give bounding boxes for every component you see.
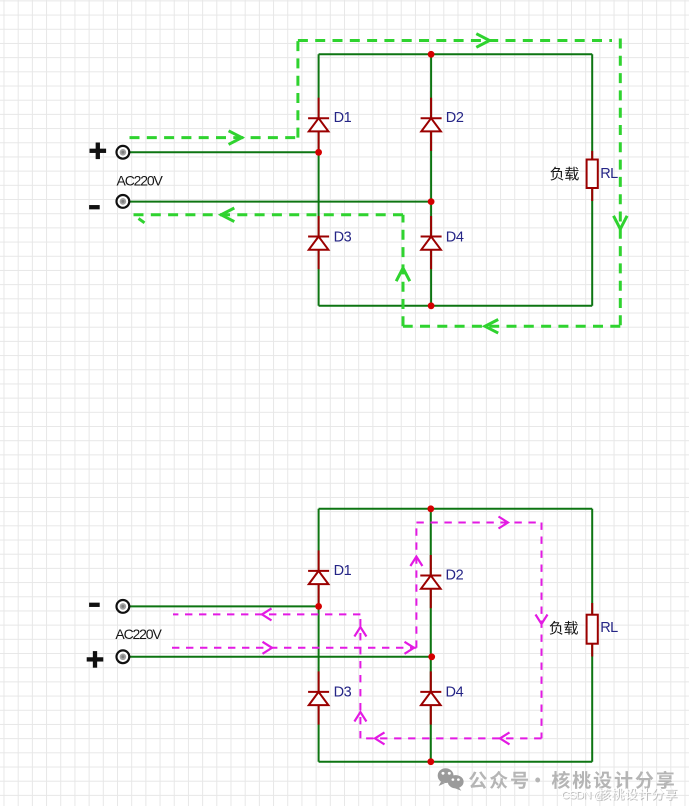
resistor RL body (bottom circuit): [587, 615, 598, 644]
svg-text:D2: D2: [446, 110, 464, 126]
junction dot + input node (top circuit): [315, 149, 322, 156]
watermark text 公众号·核桃设计分享: [469, 771, 674, 789]
WeChat logo (watermark): [438, 768, 464, 791]
svg-text:AC220V: AC220V: [115, 626, 162, 642]
terminal - (top circuit): [117, 195, 130, 208]
flow arrow down on right leg (top circuit): [614, 216, 628, 229]
diode D3 (top circuit): [308, 216, 329, 269]
flow arrow up on D4 leg (top circuit): [396, 268, 410, 281]
diode D4 (top circuit): [421, 216, 442, 269]
wire: middle vertical (bottom circuit): [430, 509, 432, 762]
wire: + input wire (top circuit): [129, 151, 319, 153]
flow arrow down on load leg (bottom circuit): [536, 615, 548, 625]
wire: bottom rail (bottom circuit): [319, 761, 593, 763]
watermark text CSDN @ (embossed): [561, 790, 605, 803]
junction dot + input node (bottom circuit): [428, 653, 435, 660]
wire: left vertical (bottom circuit): [318, 509, 320, 762]
diode D1 (top circuit): [308, 98, 329, 151]
svg-text:D2: D2: [446, 568, 464, 584]
svg-text:D3: D3: [334, 229, 352, 245]
junction dot top-middle node (bottom circuit): [427, 505, 434, 512]
svg-text:D3: D3: [334, 685, 352, 701]
flow arrow left on bottom leg (top circuit): [485, 320, 498, 334]
flow path: up left side (green dashed, top circuit): [296, 41, 299, 138]
resistor RL body (top circuit): [587, 160, 598, 189]
flow path: + terminal feed (magenta dashed, bottom circuit): [172, 647, 416, 649]
flow path: up past D2 (magenta dashed, bottom circuit): [415, 523, 417, 648]
flow arrow right on + feed (top circuit): [229, 131, 242, 145]
wire: + input wire (bottom circuit): [129, 656, 431, 658]
svg-text:CSDN @: CSDN @: [561, 790, 604, 802]
label 负载 (bottom circuit): [550, 621, 578, 635]
plus sign (bottom circuit): [87, 651, 104, 668]
terminal - (bottom circuit): [117, 600, 130, 613]
flow path: along top (green dashed, top circuit): [298, 39, 612, 42]
plus sign (top circuit): [90, 143, 107, 160]
flow arrow right on top leg (top circuit): [476, 34, 489, 48]
junction dot - input node (top circuit): [428, 198, 435, 205]
flow arrow right on top leg (bottom circuit): [499, 517, 509, 529]
wire: middle vertical (top circuit): [430, 54, 432, 305]
diode D2 (bottom circuit): [420, 555, 441, 608]
wire: top rail (bottom circuit): [319, 508, 593, 510]
flow arrow up 2 on D3 leg (bottom circuit): [354, 627, 366, 637]
diode D2 (top circuit): [421, 98, 442, 151]
minus sign (bottom circuit): [89, 603, 100, 607]
diode D4 (bottom circuit): [420, 671, 441, 724]
flow arrow left on return leg (top circuit): [221, 208, 234, 222]
flow path: down through load (magenta dashed, bottom circuit): [541, 523, 543, 739]
flow arrow right 1 on + feed (bottom circuit): [263, 642, 273, 654]
svg-text:RL: RL: [600, 166, 618, 182]
flow arrow left 2 on bottom leg (bottom circuit): [375, 732, 385, 744]
flow arrow up on D2 leg (bottom circuit): [410, 557, 422, 567]
terminal + (top circuit): [117, 146, 130, 159]
wire: left vertical (top circuit): [318, 54, 320, 305]
wire: bottom rail (top circuit): [319, 305, 593, 307]
flow path end curl near - terminal (top circuit): [139, 219, 145, 223]
junction dot - input node (bottom circuit): [315, 603, 322, 610]
flow arrow right 2 on + feed (bottom circuit): [405, 642, 415, 654]
minus sign (top circuit): [89, 205, 100, 209]
wire: - input wire (top circuit): [129, 201, 431, 203]
svg-text:D1: D1: [334, 110, 352, 126]
junction dot top-middle node (top circuit): [428, 51, 435, 58]
diode D3 (bottom circuit): [308, 671, 329, 724]
watermark text 核桃设计分享 small (embossed): [598, 788, 677, 801]
wire: top rail (top circuit): [319, 53, 593, 55]
svg-text:D4: D4: [446, 229, 464, 245]
svg-text:AC220V: AC220V: [117, 173, 164, 189]
flow arrow left on return leg (bottom circuit): [262, 608, 272, 620]
wire: right vertical (bottom circuit): [591, 509, 593, 762]
svg-text:D1: D1: [334, 563, 352, 579]
junction dot bottom-middle node (bottom circuit): [427, 758, 434, 765]
flow arrow up 1 on D3 leg (bottom circuit): [354, 712, 366, 722]
svg-text:D4: D4: [446, 685, 464, 701]
label 负载 (top circuit): [550, 167, 578, 181]
junction dot bottom-middle node (top circuit): [428, 302, 435, 309]
flow path: up through D3 region (magenta dashed, bottom circuit): [359, 614, 361, 738]
wire: right vertical (top circuit): [591, 54, 593, 305]
resistor RL leads (bottom circuit): [591, 603, 593, 615]
resistor RL leads (top circuit): [591, 151, 593, 160]
flow path: along top toward load (magenta dashed, bottom circuit): [416, 522, 541, 524]
terminal + (bottom circuit): [117, 650, 130, 663]
flow path: up through D4 region (green dashed, top circuit): [402, 215, 405, 326]
flow path: along bottom (green dashed, top circuit): [403, 325, 620, 328]
flow arrow left 1 on bottom leg (bottom circuit): [500, 732, 510, 744]
diode D1 (bottom circuit): [308, 550, 329, 603]
flow path: return to - terminal (magenta dashed, bottom circuit): [173, 613, 360, 615]
flow path: down right side (green dashed, top circuit): [619, 39, 622, 327]
flow path: along bottom (magenta dashed, bottom circuit): [360, 737, 541, 739]
flow path: return to - terminal (green dashed, top circuit): [131, 213, 403, 216]
wire: - input wire (bottom circuit): [129, 605, 319, 607]
flow path: + terminal to bridge (green dashed, top circuit): [130, 136, 298, 139]
svg-text:RL: RL: [600, 620, 618, 636]
